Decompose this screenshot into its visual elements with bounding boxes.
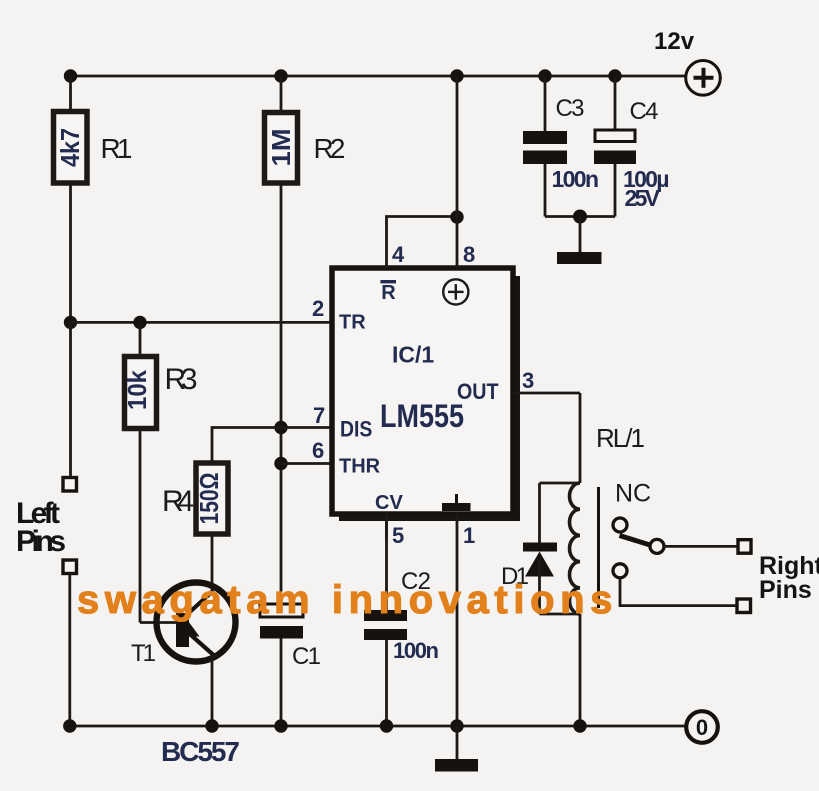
wire switch pole to right pin 1: [664, 545, 738, 548]
node rail-C3: [538, 69, 551, 82]
wire R3 top: [139, 322, 142, 356]
svg-text:DIS: DIS: [340, 417, 372, 442]
wire C3 C4 bottoms join: [545, 215, 615, 218]
terminal 0 volt: [686, 711, 718, 743]
svg-text:0: 0: [696, 715, 708, 740]
node rail-pin8: [450, 69, 463, 82]
svg-text:Pins: Pins: [16, 525, 66, 558]
node rail-R1: [64, 69, 77, 82]
svg-text:3: 3: [522, 368, 534, 393]
capacitor C2: [364, 521, 407, 726]
node rail-T1 collector: [205, 719, 218, 732]
resistor R2: [265, 113, 298, 184]
ground under C3 C4: [557, 217, 602, 265]
svg-text:BC557: BC557: [161, 736, 240, 767]
svg-text:TR: TR: [339, 312, 366, 334]
svg-text:7: 7: [313, 403, 325, 428]
svg-text:C1: C1: [292, 643, 321, 670]
terminal right pin 2: [737, 599, 751, 613]
svg-text:25V: 25V: [625, 185, 661, 211]
wire relay bottom to rail: [579, 614, 582, 726]
relay coil RL/1: [570, 483, 599, 614]
svg-text:10k: 10k: [122, 370, 152, 410]
svg-text:IC/1: IC/1: [392, 341, 434, 367]
svg-text:T1: T1: [131, 640, 156, 667]
wire discharge pin7: [212, 428, 332, 462]
svg-text:5: 5: [392, 523, 404, 548]
svg-text:R1: R1: [101, 133, 133, 164]
svg-text:100n: 100n: [552, 166, 600, 192]
terminal left pin 2: [63, 560, 77, 574]
wire R2 bottom to C1: [280, 183, 283, 604]
svg-text:CV: CV: [375, 492, 403, 514]
svg-text:150Ω: 150Ω: [194, 473, 224, 525]
IC U1 LM555 body: [332, 268, 520, 521]
svg-text:4k7: 4k7: [55, 128, 85, 167]
wire pin4 reset: [387, 217, 458, 269]
svg-text:LM555: LM555: [380, 398, 464, 434]
wire R4 bottom to T1 emitter: [211, 534, 214, 592]
resistor R1: [54, 112, 88, 184]
node rail-leftpin: [63, 719, 76, 732]
wire pin5 CV down: [385, 514, 388, 540]
wire trigger pin2: [71, 321, 333, 324]
wire pin8 supply: [456, 76, 459, 268]
svg-text:C4: C4: [630, 98, 659, 125]
svg-text:12v: 12v: [654, 28, 695, 55]
wire threshold pin6: [281, 462, 332, 465]
svg-text:1: 1: [463, 523, 475, 548]
svg-text:R4: R4: [162, 485, 194, 518]
svg-text:RL/1: RL/1: [596, 423, 645, 453]
switch NC contact: [613, 518, 664, 578]
svg-text:8: 8: [463, 242, 475, 267]
wire NC contact to right pin 2: [620, 578, 738, 606]
svg-text:R: R: [381, 282, 396, 304]
node DIS junction: [274, 421, 287, 434]
wire top +12V rail: [68, 75, 687, 78]
terminal left pin 1: [63, 478, 77, 492]
capacitor C3: [523, 76, 567, 217]
node C3-C4-ground: [573, 210, 587, 224]
node rail-C1: [274, 719, 287, 732]
node pin4-pin8: [450, 210, 463, 223]
node rail-pin1: [450, 719, 463, 732]
ground under pin1: [435, 726, 478, 772]
svg-text:6: 6: [312, 438, 324, 463]
node rail-relay: [573, 719, 586, 732]
svg-text:THR: THR: [339, 456, 381, 478]
label Right Pins: [759, 552, 819, 604]
wire pin1 ground: [456, 514, 459, 726]
svg-text:100n: 100n: [393, 638, 439, 663]
ground bar symbol inside IC pin1: [442, 494, 471, 511]
svg-text:R3: R3: [165, 363, 198, 396]
svg-text:NC: NC: [615, 480, 651, 508]
reset bar label R: [380, 280, 396, 304]
wire R3 bottom to T1 base: [139, 428, 142, 623]
wire relay top: [579, 393, 582, 483]
wire pin3 output: [513, 392, 580, 395]
resistor R3: [122, 357, 157, 429]
node rail-R2: [274, 69, 287, 82]
node rail-C2: [380, 719, 393, 732]
wire R1 top: [69, 76, 72, 110]
terminal right pin 1: [738, 540, 751, 554]
svg-text:4: 4: [392, 242, 405, 267]
svg-text:Pins: Pins: [759, 576, 812, 604]
wire R2 top: [280, 76, 283, 112]
capacitor C4 electrolytic: [594, 76, 636, 217]
svg-text:1M: 1M: [266, 129, 296, 167]
svg-text:C3: C3: [556, 95, 585, 122]
transistor T1 BC557: [140, 583, 236, 727]
capacitor C1: [260, 604, 303, 726]
node TR-R3: [133, 316, 146, 329]
wire left pin 2 to ground rail: [68, 574, 71, 726]
node R1-TR-leftpin: [64, 316, 77, 329]
wire bottom ground rail: [66, 725, 686, 728]
terminal 12v positive supply: [654, 28, 720, 95]
svg-text:swagatam innovations: swagatam innovations: [77, 578, 618, 622]
supply plus symbol inside IC: [443, 279, 468, 304]
diode D1: [523, 483, 580, 614]
svg-text:R2: R2: [314, 133, 346, 164]
svg-text:2: 2: [312, 296, 324, 321]
wire to left pin 1: [69, 322, 72, 477]
node rail-C4: [608, 69, 621, 82]
label Left Pins: [16, 497, 66, 558]
node THR junction: [274, 457, 287, 470]
wire R1 bottom to TR node: [69, 183, 72, 322]
resistor R4: [194, 463, 228, 534]
